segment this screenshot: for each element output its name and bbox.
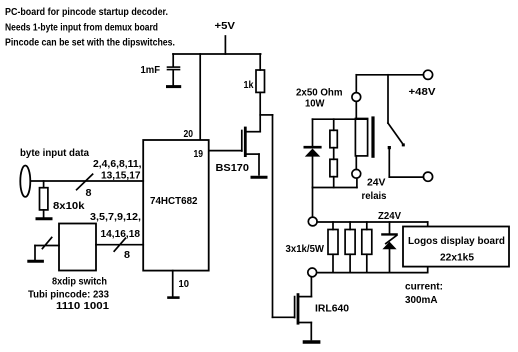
svg-text:13,15,17: 13,15,17 <box>101 169 141 181</box>
resistor R5 1k lead <box>332 222 334 230</box>
resistor R2 8x10k lead <box>43 181 45 188</box>
wire +5V rail <box>173 53 261 55</box>
current note line 2 <box>405 294 438 306</box>
wire +5V drop <box>224 36 226 54</box>
transistor Q2 label IRL640 <box>315 303 349 315</box>
resistor R6 1k lead <box>349 222 351 230</box>
wire snubber top rail <box>313 118 368 120</box>
pincode note line 1 <box>28 289 109 301</box>
terminal 24V circle <box>423 172 432 181</box>
svg-text:Needs 1-byte input from demux: Needs 1-byte input from demux board <box>5 21 158 33</box>
byte input data label <box>20 147 89 159</box>
wire long drop to IRL640 gate <box>272 115 274 317</box>
svg-text:+48V: +48V <box>409 86 436 98</box>
node circle (relay top) <box>352 93 361 102</box>
wire relay top drop <box>355 75 357 93</box>
svg-text:10: 10 <box>179 278 190 290</box>
wire load rail right rise <box>427 264 429 273</box>
svg-text:IRL640: IRL640 <box>315 303 349 315</box>
ground (BS170 source) <box>252 176 266 179</box>
zener Z1 diagonal <box>386 235 397 243</box>
wire 50ohm top lead <box>333 119 335 130</box>
svg-text:BS170: BS170 <box>216 162 250 174</box>
resistor R5 bottom lead <box>332 254 334 272</box>
pin list 2,4,6,8,11, <box>93 158 142 170</box>
pin list 13,15,17 <box>101 169 141 181</box>
svg-text:1k: 1k <box>244 79 254 91</box>
resistor R3 50ohm body 1 <box>330 130 337 147</box>
Z24V label <box>378 210 401 222</box>
bus slash 2 <box>114 238 125 251</box>
svg-text:300mA: 300mA <box>405 294 438 306</box>
pin list 14,16,18 <box>101 228 141 240</box>
pin 10 label <box>179 278 190 290</box>
switch SW1 fixed contact dot <box>388 146 391 149</box>
zener Z1 triangle <box>382 242 396 250</box>
wire drop to node 3 <box>312 188 314 218</box>
svg-text:2,4,6,8,11,: 2,4,6,8,11, <box>93 158 142 170</box>
ground (pin 10) <box>169 296 179 299</box>
resistor R2 label 8x10k <box>53 200 85 212</box>
svg-text:+5V: +5V <box>215 20 236 32</box>
svg-text:3x1k/5W: 3x1k/5W <box>286 243 325 255</box>
bus width 8 label <box>86 187 92 199</box>
svg-text:3,5,7,9,12,: 3,5,7,9,12, <box>90 211 141 223</box>
dip switch S1 box <box>59 224 96 271</box>
svg-text:8x10k: 8x10k <box>53 200 85 212</box>
svg-text:19: 19 <box>194 148 204 160</box>
+48V label <box>409 86 436 98</box>
ground (IRL640 source) <box>304 340 318 343</box>
resistor R1 1k body <box>256 70 265 92</box>
svg-text:8xdip switch: 8xdip switch <box>52 276 107 288</box>
wire load top rail <box>317 221 428 223</box>
resistor R7 bottom lead <box>366 254 368 272</box>
wire 8x10k bottom lead <box>43 210 45 217</box>
wire +48V rail <box>356 74 423 76</box>
bus width 8 label (dip) <box>124 249 130 261</box>
wire load bottom rail <box>317 272 427 274</box>
resistor R5 body <box>328 230 338 255</box>
resistor R2 8x10k body <box>40 188 48 210</box>
ground (dip switch) <box>29 260 43 263</box>
resistor R7 body <box>362 230 372 255</box>
relay K1 coil <box>355 119 367 156</box>
resistor R7 1k lead <box>366 222 368 230</box>
resistor R6 body <box>345 230 355 255</box>
+5V supply label <box>215 20 236 32</box>
wire to 24V terminal <box>389 176 423 178</box>
svg-text:1110 1001: 1110 1001 <box>56 300 109 312</box>
relay K1 core bar <box>371 118 374 156</box>
svg-text:74HCT682: 74HCT682 <box>150 195 198 207</box>
wire 50ohm bottom lead <box>333 177 335 188</box>
wire diode bottom lead <box>312 157 314 188</box>
node circle (relay bottom) <box>352 169 361 178</box>
wire node to lower rail <box>356 178 358 187</box>
svg-text:20: 20 <box>184 128 194 140</box>
bus slash (dip left) <box>42 238 51 249</box>
svg-text:24V: 24V <box>367 177 386 189</box>
dip switch label <box>52 276 107 288</box>
wire input bus <box>31 180 144 182</box>
wire pin20 drop <box>199 54 201 140</box>
resistor R4 50ohm body 2 <box>330 159 337 176</box>
transistor Q1 label BS170 <box>216 162 250 174</box>
bus slash 1 <box>77 174 93 190</box>
pin 20 label <box>184 128 194 140</box>
relais label <box>362 190 387 202</box>
Logos box label line 2 <box>440 252 474 264</box>
resistor R1 1k label <box>244 79 254 91</box>
svg-text:PC-board for pincode startup d: PC-board for pincode startup decoder. <box>5 6 168 18</box>
svg-text:relais: relais <box>362 190 387 202</box>
transistor Q2 channel bar <box>297 295 300 324</box>
svg-text:Tubi pincode: 233: Tubi pincode: 233 <box>28 289 109 301</box>
wire cap top lead <box>172 54 174 66</box>
wire diode top lead <box>312 119 314 146</box>
wire pin10 drop <box>172 271 174 297</box>
switch SW1 blade drop <box>387 75 389 123</box>
Logos box label line 1 <box>408 235 505 247</box>
capacitor C1 1mF label <box>141 64 161 76</box>
wire switch lower drop <box>388 149 390 177</box>
pin 19 label <box>194 148 204 160</box>
svg-text:current:: current: <box>405 281 443 293</box>
switch SW1 blade <box>388 123 404 145</box>
wire snubber bottom rail <box>313 187 357 189</box>
svg-text:14,16,18: 14,16,18 <box>101 228 141 240</box>
svg-text:byte input data: byte input data <box>20 147 89 159</box>
transistor Q1 channel bar <box>244 128 247 156</box>
ground (capacitor) <box>168 85 180 88</box>
capacitor C1 plates <box>168 67 180 70</box>
node circle (load bottom) <box>308 268 317 277</box>
zener Z1 bar <box>382 233 396 235</box>
svg-text:Z24V: Z24V <box>378 210 401 222</box>
connector J1 ellipse <box>20 166 30 197</box>
transistor Q1 BS170 <box>209 131 261 175</box>
Logos display board box <box>403 227 509 267</box>
wire dip right <box>96 244 143 246</box>
diode D1 bar <box>305 146 321 149</box>
current note line 1 <box>405 281 443 293</box>
zener Z1 top lead <box>389 222 391 233</box>
node circle (load top) <box>308 217 317 226</box>
resistor R6 bottom lead <box>349 254 351 272</box>
wire dip left drop <box>34 246 36 260</box>
switch SW1 blade tip dot <box>402 143 405 146</box>
wire junction to gate-drive drop <box>260 114 272 116</box>
wire 1k top lead <box>259 54 261 70</box>
IC U1 74HCT682 box <box>143 140 209 271</box>
svg-text:8: 8 <box>86 187 92 199</box>
IC U1 label <box>150 195 198 207</box>
wire IRL640 gate lead <box>273 316 295 318</box>
ground (8x10k) <box>37 217 51 220</box>
svg-text:22x1k5: 22x1k5 <box>440 252 474 264</box>
wire into coil <box>355 101 357 118</box>
pincode note line 2 <box>56 300 109 312</box>
3x1k/5W label <box>286 243 325 255</box>
wire coil bottom <box>355 156 357 170</box>
pin list 3,5,7,9,12, <box>90 211 141 223</box>
svg-text:10W: 10W <box>305 98 325 110</box>
zener Z1 bottom lead <box>389 249 391 272</box>
svg-text:1mF: 1mF <box>141 64 161 76</box>
24V label <box>367 177 386 189</box>
svg-text:Logos display board: Logos display board <box>408 235 505 247</box>
wire 50ohm middle lead <box>333 148 335 160</box>
wire cap bottom lead <box>172 70 174 85</box>
note text block <box>5 6 175 49</box>
wire load rail right drop <box>427 222 429 230</box>
svg-text:8: 8 <box>124 249 130 261</box>
diode D1 triangle <box>305 149 321 157</box>
2x50 Ohm label <box>296 87 343 99</box>
terminal +48V circle <box>423 70 432 79</box>
wire dip left <box>35 245 59 247</box>
10W label <box>305 98 325 110</box>
svg-text:Pincode can be set with the di: Pincode can be set with the dipswitches. <box>5 37 175 49</box>
wire 1k bottom lead to drain <box>259 92 261 131</box>
transistor Q2 IRL640 <box>295 277 312 340</box>
